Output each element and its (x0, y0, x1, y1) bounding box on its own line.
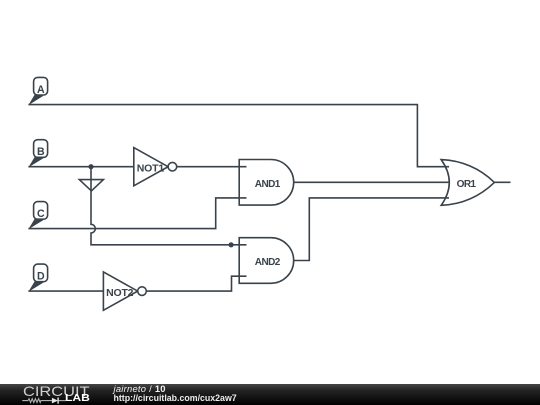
svg-text:NOT1: NOT1 (137, 162, 165, 174)
svg-text:AND1: AND1 (255, 179, 281, 190)
svg-text:C: C (37, 208, 45, 220)
svg-text:OR1: OR1 (457, 179, 477, 190)
svg-text:A: A (37, 84, 45, 96)
svg-text:B: B (37, 146, 45, 158)
svg-text:AND2: AND2 (255, 257, 281, 268)
svg-text:NOT2: NOT2 (106, 287, 134, 299)
svg-text:D: D (37, 271, 45, 283)
